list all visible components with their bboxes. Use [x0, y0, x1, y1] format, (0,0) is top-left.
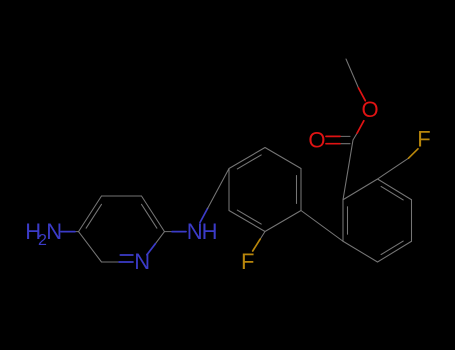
bond C5-NH2 (blue at label)	[61, 231, 75, 233]
double bond inner C3=C2	[142, 204, 157, 228]
bond N1-C6 outer gray half	[102, 261, 120, 263]
svg-text:F: F	[241, 249, 254, 274]
bond C4''-C5''	[411, 200, 413, 242]
double bond inner C3'=C4'	[296, 176, 298, 204]
svg-text:H: H	[202, 219, 218, 244]
bond C3-C2 (right edge)	[142, 196, 165, 232]
svg-text:N: N	[46, 219, 62, 244]
double bond inner C1''=C2''	[347, 207, 349, 234]
bond C2'-C3'	[265, 148, 301, 169]
O-CH3 methyl bond gray half	[346, 59, 359, 88]
bond C6'-C1'	[228, 169, 230, 211]
svg-text:N: N	[187, 219, 203, 244]
ester C-O single bond red half at O label	[357, 121, 364, 133]
bond C2-NH blue half at NH label	[172, 231, 186, 233]
bond NH-C1' blue half at NH label	[200, 208, 208, 222]
bond C2-N1 blue half at ring N	[147, 244, 156, 255]
bond C2''-C(=O) ester carbonyl	[343, 140, 353, 200]
bond C4'-C5'	[265, 211, 301, 232]
bond C5-NH2 gray stub	[75, 231, 79, 233]
bond C2-N1 upper gray half	[155, 232, 164, 244]
double bond inner C1'=C2'	[237, 155, 261, 169]
svg-text:O: O	[308, 128, 325, 153]
bond N1-C6 blue half at ring N	[119, 261, 133, 263]
bond C5'-C6'	[229, 211, 265, 232]
double bond inner C5=C4	[86, 204, 101, 228]
svg-text:F: F	[417, 127, 430, 152]
bond C4-C3 (top edge)	[102, 195, 142, 197]
bond C5''-C6''	[378, 241, 412, 262]
bond C5'-F gray part	[260, 232, 265, 240]
bond C2-NH gray half	[165, 231, 173, 233]
O-CH3 methyl bond red half at O label	[359, 88, 366, 101]
svg-text:N: N	[134, 249, 150, 274]
bond C1''-C2''	[342, 200, 344, 242]
bond F-C5' (gold at label)	[253, 239, 261, 251]
ester C-O single bond gray half	[353, 133, 357, 140]
bond C1'-C2'	[229, 148, 265, 169]
double bond inner C3''=C4''	[381, 187, 403, 200]
double bond inner C5''=C6''	[381, 241, 403, 254]
bond C6''-C1''	[343, 241, 378, 262]
bond NH-C1' gray half	[208, 169, 229, 209]
bond C5-C4 (left edge)	[79, 196, 102, 232]
biphenyl bond C4'-C1''	[301, 211, 343, 242]
double bond inner C5'=C6'	[237, 210, 261, 224]
bond F-C3'' (gold at label)	[409, 149, 419, 158]
bond C3''-C4''	[378, 179, 412, 200]
double bond inner N1=C6 (blue)	[120, 254, 133, 256]
bond C3''-F gray part	[378, 158, 409, 179]
bond C2''-C3''	[343, 179, 378, 200]
C=O double bond gray halves	[340, 135, 350, 137]
svg-text:O: O	[362, 97, 379, 122]
bond C6-C5	[79, 232, 102, 262]
bond C3'-C4'	[300, 169, 302, 211]
pyridine ring	[75, 196, 172, 262]
C=O double bond red halves at O label	[326, 135, 340, 137]
